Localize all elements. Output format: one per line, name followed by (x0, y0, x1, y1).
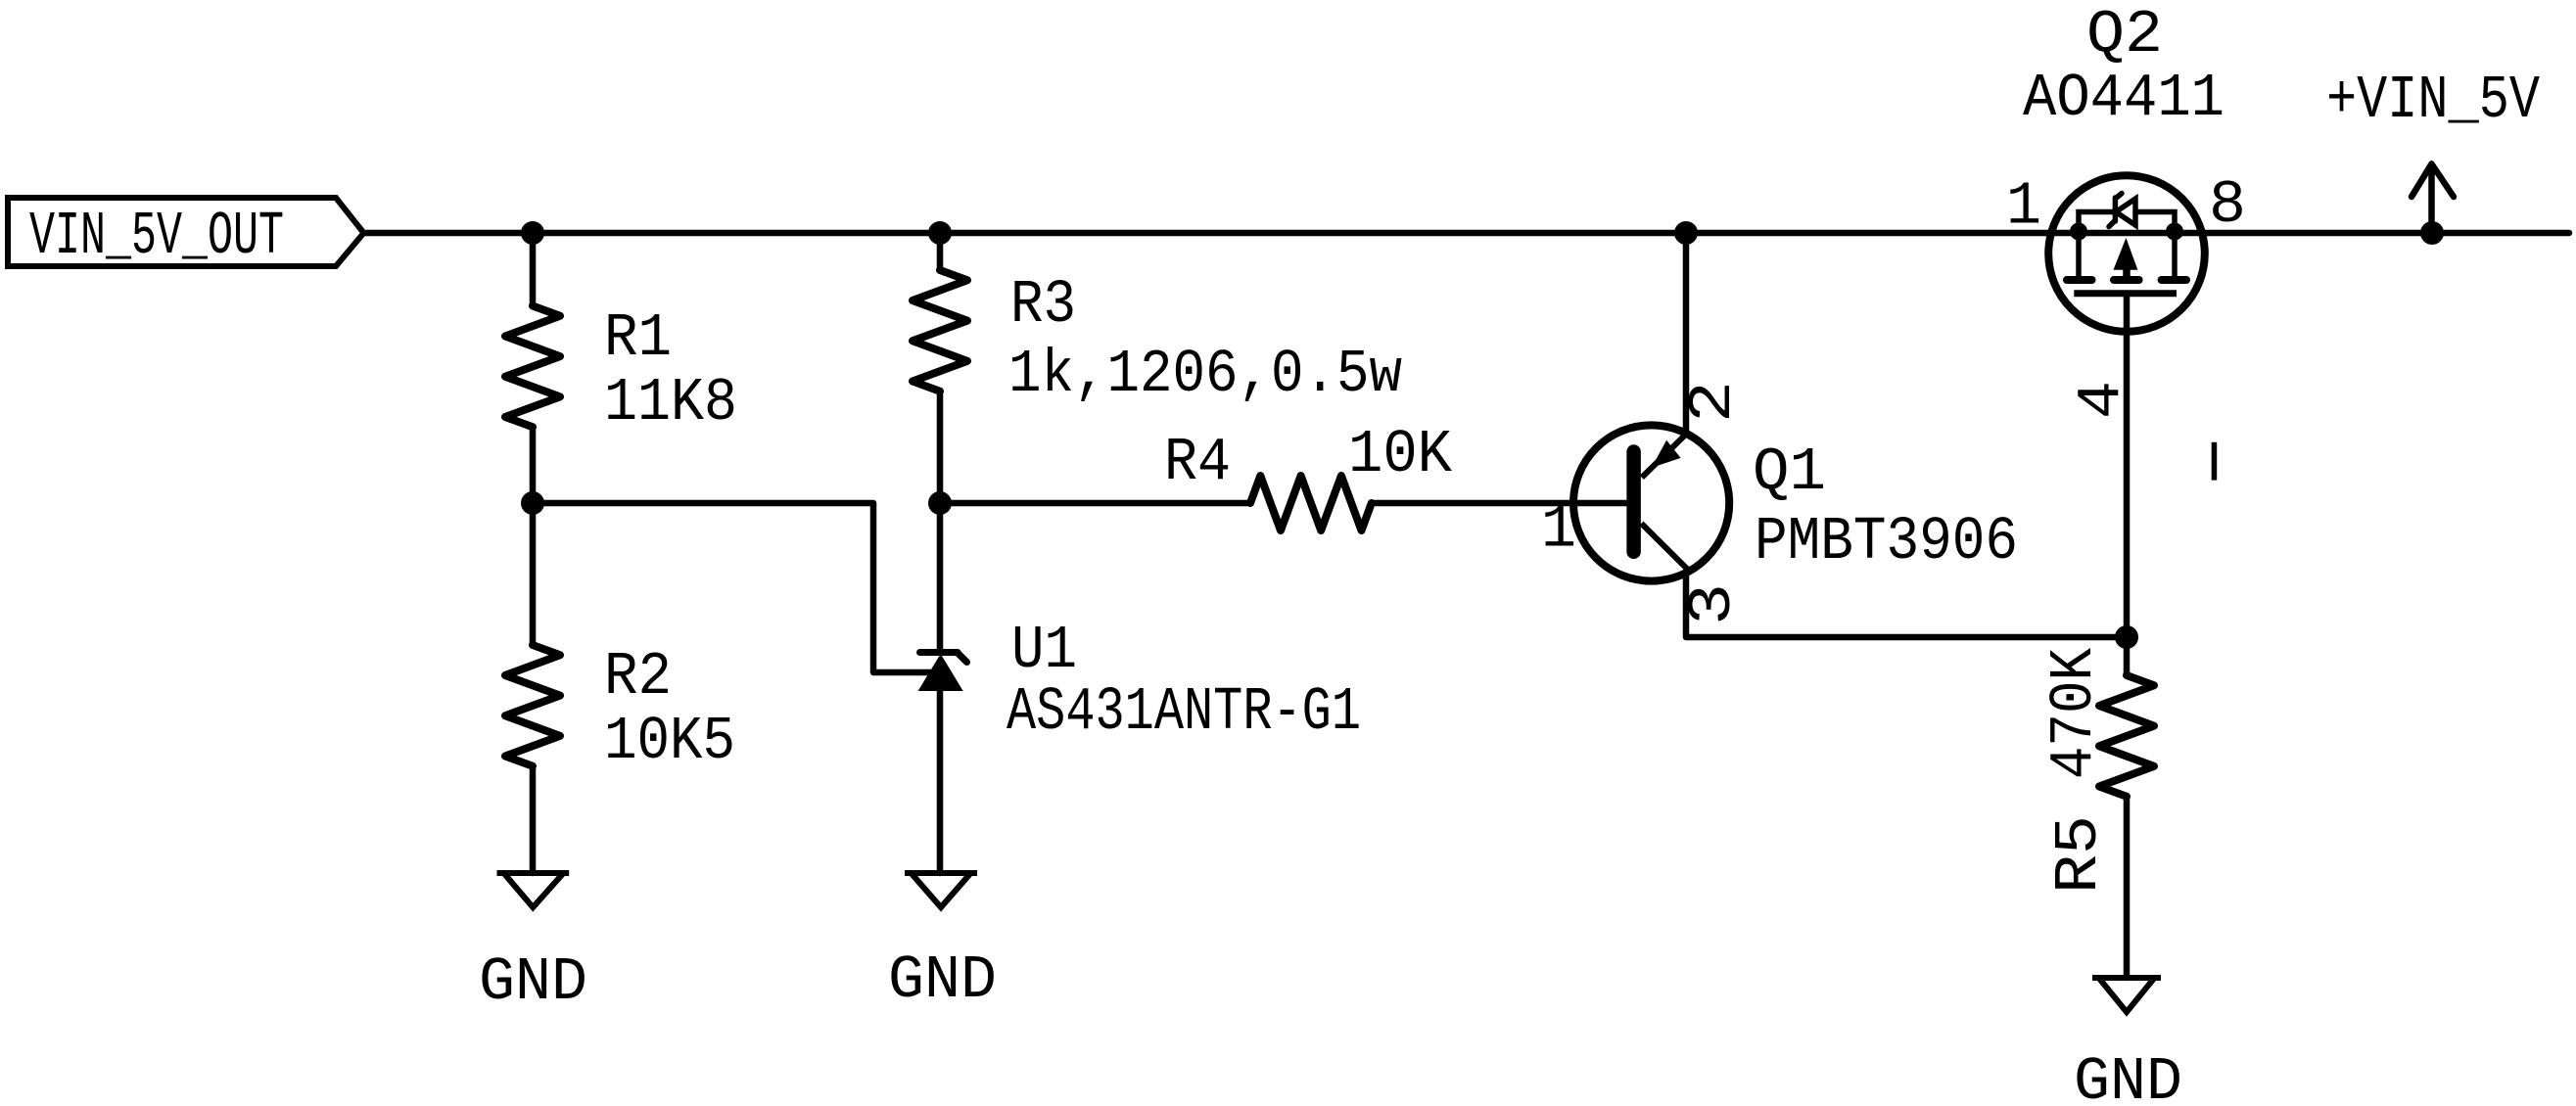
svg-text:3: 3 (1678, 583, 1748, 625)
svg-text:R5: R5 (2044, 815, 2114, 894)
svg-text:R4: R4 (1164, 428, 1231, 497)
svg-text:GND: GND (888, 945, 997, 1015)
svg-text:10K: 10K (1348, 420, 1453, 489)
svg-text:11K8: 11K8 (604, 368, 737, 438)
svg-text:4: 4 (2067, 381, 2136, 419)
svg-text:AS431ANTR-G1: AS431ANTR-G1 (1007, 677, 1361, 747)
svg-text:1k,1206,0.5w: 1k,1206,0.5w (1008, 340, 1402, 409)
svg-text:Q1: Q1 (1753, 438, 1826, 507)
svg-text:AO4411: AO4411 (2023, 64, 2225, 133)
svg-text:R1: R1 (604, 303, 672, 373)
svg-text:470K: 470K (2039, 647, 2109, 779)
svg-text:VIN_5V_OUT: VIN_5V_OUT (29, 202, 284, 271)
svg-text:GND: GND (479, 947, 587, 1017)
svg-text:10K5: 10K5 (604, 707, 735, 776)
svg-text:GND: GND (2074, 1047, 2182, 1106)
svg-text:8: 8 (2209, 170, 2246, 240)
svg-text:1: 1 (2006, 172, 2041, 242)
svg-text:R2: R2 (604, 642, 672, 712)
svg-text:U1: U1 (1011, 616, 1077, 685)
svg-text:+VIN_5V: +VIN_5V (2326, 66, 2540, 135)
svg-text:Q2: Q2 (2086, 0, 2163, 69)
svg-text:PMBT3906: PMBT3906 (1755, 507, 2018, 576)
svg-text:1: 1 (1541, 495, 1576, 565)
svg-text:2: 2 (1678, 381, 1748, 423)
svg-text:R3: R3 (1010, 270, 1076, 340)
